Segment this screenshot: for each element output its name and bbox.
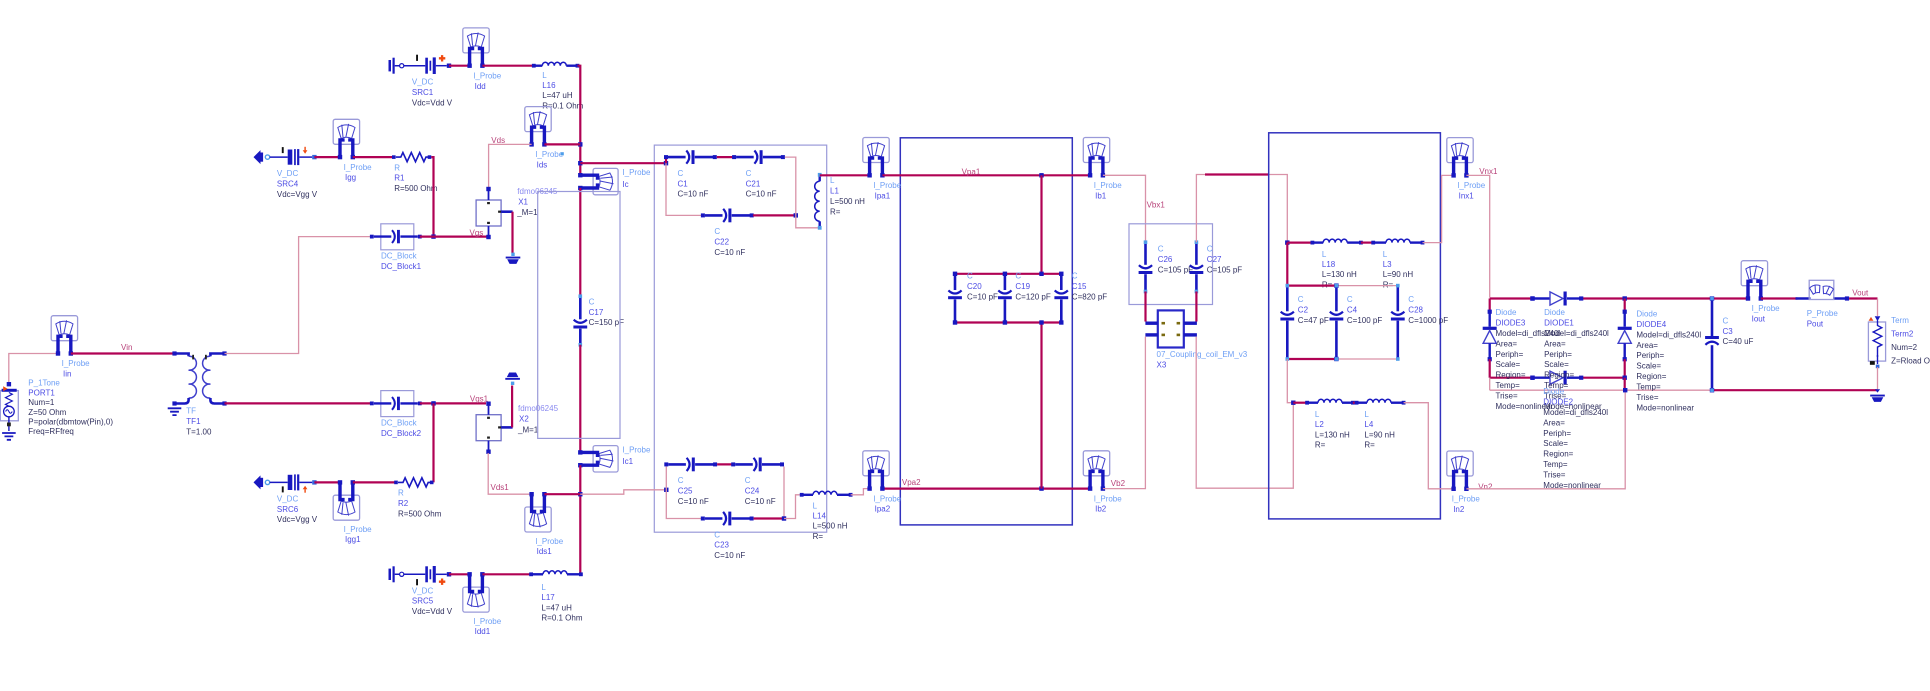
svg-text:C: C bbox=[714, 530, 720, 539]
wire secondary bottom to DC_Block2 bbox=[225, 402, 372, 404]
wire C25 to C24 bbox=[717, 463, 733, 465]
svg-text:C: C bbox=[1298, 295, 1304, 304]
svg-text:Num=1: Num=1 bbox=[28, 398, 55, 407]
P_Probe Pout bbox=[1796, 280, 1850, 300]
svg-text:SRC5: SRC5 bbox=[412, 597, 434, 606]
svg-text:Ic1: Ic1 bbox=[622, 457, 633, 466]
svg-text:R=500 Ohm: R=500 Ohm bbox=[398, 509, 442, 518]
svg-text:Scale=: Scale= bbox=[1496, 360, 1521, 369]
svg-text:I_Probe: I_Probe bbox=[473, 617, 502, 626]
svg-text:Area=: Area= bbox=[1636, 341, 1658, 350]
subnetwork box A around C1..C23 bbox=[654, 145, 826, 532]
svg-text:Diode: Diode bbox=[1636, 310, 1657, 319]
V_DC SRC4 bbox=[254, 147, 317, 165]
svg-text:X1: X1 bbox=[518, 198, 528, 207]
capacitor C27 bbox=[1190, 240, 1204, 293]
svg-text:I_Probe: I_Probe bbox=[622, 445, 651, 454]
svg-text:Vdc=Vdd V: Vdc=Vdd V bbox=[412, 99, 453, 108]
junction trio riser top bbox=[1039, 173, 1043, 177]
svg-text:Region=: Region= bbox=[1544, 371, 1574, 380]
wire C25-left vertical to C23 (pink) bbox=[666, 467, 703, 519]
svg-text:L1: L1 bbox=[830, 187, 839, 196]
svg-text:V_DC: V_DC bbox=[412, 586, 434, 595]
inductor L1 (vertical) bbox=[815, 173, 822, 230]
svg-text:R=500 Ohm: R=500 Ohm bbox=[394, 184, 438, 193]
wire X1 source to ground bbox=[511, 212, 513, 253]
wire In2 to rectifier (pink) bbox=[1466, 390, 1625, 489]
svg-text:Term2: Term2 bbox=[1891, 330, 1914, 339]
svg-text:Area=: Area= bbox=[1544, 339, 1566, 348]
svg-text:C=40 uF: C=40 uF bbox=[1723, 337, 1754, 346]
svg-text:I_Probe: I_Probe bbox=[473, 71, 502, 80]
diode top rail bbox=[1490, 297, 1533, 299]
svg-text:C4: C4 bbox=[1347, 305, 1358, 314]
svg-text:C: C bbox=[1158, 245, 1164, 254]
svg-text:C24: C24 bbox=[745, 487, 760, 496]
svg-text:Vpa2: Vpa2 bbox=[902, 478, 921, 487]
junctions top rail bbox=[1530, 296, 1534, 300]
svg-text:Ic: Ic bbox=[622, 180, 628, 189]
stray pin dot bbox=[561, 152, 564, 155]
V_DC SRC5 bbox=[389, 566, 452, 585]
svg-text:L3: L3 bbox=[1383, 260, 1392, 269]
svg-text:SRC1: SRC1 bbox=[412, 88, 434, 97]
svg-text:R: R bbox=[398, 489, 404, 498]
wire to L18 bbox=[1287, 242, 1312, 244]
I_Probe In2 bbox=[1447, 451, 1473, 491]
svg-text:07_Coupling_coil_EM_v3: 07_Coupling_coil_EM_v3 bbox=[1157, 350, 1248, 359]
ground X2 (flipped) bbox=[505, 373, 520, 380]
transistor block X2 fdmo06245 (mirrored) bbox=[476, 402, 512, 454]
I_Probe Ic (rotated) bbox=[578, 168, 618, 194]
svg-text:R2: R2 bbox=[398, 499, 409, 508]
svg-text:L: L bbox=[1364, 410, 1369, 419]
svg-text:C=10 nF: C=10 nF bbox=[745, 497, 776, 506]
svg-text:Ib2: Ib2 bbox=[1095, 505, 1107, 514]
V_DC SRC6 bbox=[254, 474, 317, 492]
svg-text:C19: C19 bbox=[1015, 282, 1030, 291]
svg-text:L=130 nH: L=130 nH bbox=[1315, 430, 1350, 439]
wire Term2 to ground rail bbox=[1877, 367, 1879, 390]
capacitor C23 bbox=[701, 512, 754, 526]
capacitor C3 (flipped) bbox=[1705, 297, 1719, 392]
svg-text:Area=: Area= bbox=[1543, 418, 1565, 427]
svg-text:Scale=: Scale= bbox=[1636, 362, 1661, 371]
DC_Block DC_Block1 bbox=[370, 224, 422, 250]
I_Probe Ipa2 bbox=[863, 451, 889, 491]
svg-text:L: L bbox=[813, 501, 818, 510]
capacitor C19 bbox=[998, 275, 1012, 321]
wire C17 to Ic1 bbox=[579, 345, 581, 452]
diode DIODE3 (vertical) bbox=[1489, 299, 1491, 312]
wire Ids1 to drain bus bbox=[544, 493, 580, 495]
svg-text:Freq=RFfreq: Freq=RFfreq bbox=[28, 427, 74, 436]
svg-text:Temp=: Temp= bbox=[1636, 382, 1661, 391]
svg-text:C: C bbox=[678, 169, 684, 178]
wire Ic1 to lower corner bbox=[579, 465, 581, 574]
svg-text:Idd1: Idd1 bbox=[475, 627, 491, 636]
junction bbox=[664, 488, 668, 492]
I_Probe Igg1 bbox=[333, 480, 359, 520]
svg-text:R=: R= bbox=[830, 207, 841, 216]
wire SRC6 to Igg1 bbox=[314, 481, 340, 483]
I_Probe Ib2 bbox=[1083, 451, 1109, 491]
svg-text:Vdc=Vdd V: Vdc=Vdd V bbox=[412, 607, 453, 616]
svg-text:I_Probe: I_Probe bbox=[1452, 495, 1481, 504]
wire Ids to drain bus bbox=[544, 143, 580, 145]
svg-text:L: L bbox=[541, 583, 546, 592]
svg-text:Vgs: Vgs bbox=[470, 229, 484, 238]
svg-text:C3: C3 bbox=[1723, 327, 1734, 336]
svg-text:C17: C17 bbox=[589, 308, 604, 317]
svg-text:C=10 nF: C=10 nF bbox=[714, 551, 745, 560]
svg-text:R=: R= bbox=[1315, 441, 1326, 450]
I_Probe Igg bbox=[333, 119, 359, 159]
port P_1Tone PORT1 bbox=[0, 382, 18, 431]
wire Inx1 to diode bridge (pink) bbox=[1466, 175, 1489, 297]
junction C1 feed bbox=[578, 161, 582, 165]
junction bbox=[794, 213, 798, 217]
wire L3 out to Inx1 (pink) bbox=[1423, 175, 1454, 242]
wire SRC1 to Idd bbox=[449, 65, 470, 67]
svg-text:V_DC: V_DC bbox=[412, 78, 434, 87]
svg-text:C=10 nF: C=10 nF bbox=[678, 190, 709, 199]
svg-text:X2: X2 bbox=[519, 415, 529, 424]
svg-text:I_Probe: I_Probe bbox=[62, 359, 91, 368]
wire C21 out down to L1 (pink) bbox=[785, 157, 796, 215]
svg-text:R=: R= bbox=[1383, 280, 1394, 289]
wire DC_Block2 to X2 gate bbox=[420, 402, 486, 404]
svg-text:Model=di_dfls240l: Model=di_dfls240l bbox=[1543, 408, 1608, 417]
svg-text:L: L bbox=[1383, 250, 1388, 259]
inductor L3 bbox=[1371, 239, 1424, 244]
wire C24-right vertical (pink) bbox=[783, 467, 785, 519]
svg-text:DC_Block: DC_Block bbox=[381, 418, 418, 427]
svg-text:L2: L2 bbox=[1315, 420, 1324, 429]
svg-text:R=: R= bbox=[1364, 441, 1375, 450]
box D around C26/C27 bbox=[1129, 224, 1213, 305]
svg-text:Z=Rload Oh: Z=Rload Oh bbox=[1891, 357, 1930, 366]
svg-text:C=100 pF: C=100 pF bbox=[1347, 316, 1382, 325]
svg-text:C=10 nF: C=10 nF bbox=[714, 248, 745, 257]
wire R2 riser bbox=[432, 403, 434, 482]
svg-text:C=10 nF: C=10 nF bbox=[746, 190, 777, 199]
svg-text:Periph=: Periph= bbox=[1636, 351, 1664, 360]
svg-text:L4: L4 bbox=[1364, 420, 1373, 429]
wire Vpa1 rail to Ib1 bbox=[882, 174, 1090, 176]
resistor R1 bbox=[392, 153, 431, 162]
svg-text:Region=: Region= bbox=[1636, 372, 1666, 381]
transistor block X1 fdmo06245 bbox=[476, 187, 512, 239]
svg-text:Z=50 Ohm: Z=50 Ohm bbox=[28, 408, 66, 417]
svg-text:Area=: Area= bbox=[1496, 339, 1518, 348]
svg-text:Periph=: Periph= bbox=[1544, 350, 1572, 359]
ground under PORT1 bbox=[2, 433, 16, 440]
svg-text:Pout: Pout bbox=[1807, 320, 1824, 329]
junction L18 row bbox=[1285, 240, 1289, 244]
ground under TF1 bbox=[168, 408, 182, 415]
svg-text:L: L bbox=[542, 71, 547, 80]
svg-text:R: R bbox=[394, 163, 400, 172]
capacitor C21 bbox=[732, 150, 785, 164]
capacitor C22 bbox=[701, 209, 754, 223]
I_Probe Ipa1 bbox=[863, 138, 889, 178]
svg-text:Diode: Diode bbox=[1543, 387, 1564, 396]
svg-text:I_Probe: I_Probe bbox=[535, 150, 564, 159]
wire C27 top to box C (crimson+pink) bbox=[1196, 175, 1268, 243]
wire L14 to Ipa2 (pink jog) bbox=[851, 489, 870, 495]
svg-text:C=105 pF: C=105 pF bbox=[1158, 266, 1193, 275]
svg-text:SRC6: SRC6 bbox=[277, 505, 299, 514]
network box C bbox=[1269, 133, 1441, 519]
capacitor C4 bbox=[1330, 284, 1344, 361]
svg-text:R=0.1 Ohm: R=0.1 Ohm bbox=[542, 101, 583, 110]
svg-text:Periph=: Periph= bbox=[1496, 350, 1524, 359]
resistor R2 bbox=[394, 478, 433, 487]
svg-text:C28: C28 bbox=[1408, 305, 1423, 314]
svg-text:C15: C15 bbox=[1072, 282, 1087, 291]
svg-text:C: C bbox=[1207, 245, 1213, 254]
wire X3 right down and to L2 row (pink) bbox=[1196, 337, 1293, 489]
svg-text:I_Probe: I_Probe bbox=[622, 168, 651, 177]
svg-text:C=47 pF: C=47 pF bbox=[1298, 316, 1329, 325]
svg-text:Region=: Region= bbox=[1543, 450, 1573, 459]
svg-text:Term: Term bbox=[1891, 316, 1909, 325]
wire bottom rail drops bbox=[1489, 378, 1491, 391]
svg-text:I_Probe: I_Probe bbox=[873, 494, 902, 503]
ground X1 bbox=[506, 257, 521, 264]
svg-text:R=0.1 Ohm: R=0.1 Ohm bbox=[541, 614, 582, 623]
svg-text:C1: C1 bbox=[678, 179, 689, 188]
svg-text:Diode: Diode bbox=[1496, 308, 1517, 317]
svg-text:Model=di_dfls240l: Model=di_dfls240l bbox=[1544, 329, 1609, 338]
svg-text:DC_Block: DC_Block bbox=[381, 252, 418, 261]
svg-text:V_DC: V_DC bbox=[277, 494, 299, 503]
junctions on trio rails bbox=[1003, 272, 1007, 276]
diode bottom rail bbox=[1490, 377, 1533, 379]
svg-text:I_Probe: I_Probe bbox=[1094, 181, 1123, 190]
svg-text:L18: L18 bbox=[1322, 260, 1336, 269]
wire C22 out bbox=[753, 214, 796, 216]
ground return rail (pink then crimson) bbox=[1490, 389, 1712, 391]
svg-text:C: C bbox=[1347, 295, 1353, 304]
svg-text:P=polar(dbmtow(Pin),0): P=polar(dbmtow(Pin),0) bbox=[28, 418, 113, 427]
wire Idd1 to L17 bbox=[482, 573, 531, 575]
svg-text:Vn2: Vn2 bbox=[1478, 483, 1493, 492]
svg-text:Idd: Idd bbox=[475, 82, 486, 91]
DC_Block DC_Block2 bbox=[370, 391, 422, 417]
svg-text:Iin: Iin bbox=[63, 370, 71, 379]
wire Vpa2 rail: Ipa2 to Ib2 bbox=[882, 488, 1090, 490]
junction C1 left bbox=[664, 161, 668, 165]
riser to cap rail bbox=[1286, 243, 1288, 286]
wire SRC5 to Idd1 bbox=[449, 573, 470, 575]
wire Vin pink from PORT1 to I_Probe Iin bbox=[9, 354, 58, 385]
wire L18 to L3 bbox=[1361, 242, 1373, 244]
svg-text:Model=di_dfls240l: Model=di_dfls240l bbox=[1636, 330, 1701, 339]
svg-text:L=500 nH: L=500 nH bbox=[830, 197, 865, 206]
wire Vgs to X1 gate bbox=[420, 236, 487, 238]
svg-text:DIODE1: DIODE1 bbox=[1544, 319, 1574, 328]
svg-text:C21: C21 bbox=[746, 179, 761, 188]
inductor L17 bbox=[529, 571, 583, 576]
svg-text:C: C bbox=[746, 169, 752, 178]
svg-text:C=10 nF: C=10 nF bbox=[678, 497, 709, 506]
junction bbox=[782, 516, 786, 520]
I_Probe Idd bbox=[463, 28, 489, 68]
svg-text:Num=2: Num=2 bbox=[1891, 343, 1918, 352]
svg-text:C2: C2 bbox=[1298, 305, 1309, 314]
svg-text:C22: C22 bbox=[714, 238, 729, 247]
svg-text:C: C bbox=[678, 476, 684, 485]
wire L2 to L4 bbox=[1353, 402, 1357, 404]
svg-text:In2: In2 bbox=[1453, 505, 1465, 514]
ground under Term2 bbox=[1875, 389, 1880, 392]
svg-text:R1: R1 bbox=[394, 174, 405, 183]
capacitor C2 bbox=[1280, 284, 1294, 361]
svg-text:Scale=: Scale= bbox=[1544, 360, 1569, 369]
EM box around C17 / FET pair bbox=[538, 192, 620, 439]
svg-text:Vdc=Vgg V: Vdc=Vgg V bbox=[277, 190, 318, 199]
svg-text:Trise=: Trise= bbox=[1636, 393, 1658, 402]
wire Vin bbox=[71, 352, 175, 354]
svg-text:Temp=: Temp= bbox=[1496, 381, 1521, 390]
svg-text:L: L bbox=[830, 176, 835, 185]
svg-text:L17: L17 bbox=[541, 593, 555, 602]
svg-text:Iout: Iout bbox=[1752, 314, 1766, 323]
svg-text:C=1000 pF: C=1000 pF bbox=[1408, 316, 1448, 325]
svg-text:L: L bbox=[1322, 250, 1327, 259]
svg-text:C25: C25 bbox=[678, 487, 693, 496]
svg-text:Vgs1: Vgs1 bbox=[470, 395, 489, 404]
inductor L4 bbox=[1355, 399, 1406, 404]
junctions bbox=[1334, 283, 1338, 287]
svg-text:C: C bbox=[967, 272, 973, 281]
wire secondary top to DC_Block1 (pink) bbox=[225, 237, 372, 354]
wire drain bus to C1 block bbox=[580, 162, 666, 164]
wire C26 to X3 bbox=[1144, 292, 1146, 322]
svg-text:Ids1: Ids1 bbox=[537, 547, 553, 556]
wire cap rail down to L2 row (pink) bbox=[1287, 359, 1293, 403]
svg-text:Ipa1: Ipa1 bbox=[875, 191, 891, 200]
wire L4 out to In2 (pink) bbox=[1404, 403, 1454, 489]
cap bottom rail bbox=[1287, 358, 1336, 360]
svg-text:C=150 pF: C=150 pF bbox=[589, 318, 624, 327]
wire drain bus top corner bbox=[578, 66, 581, 173]
I_Probe Idd1 bbox=[463, 572, 489, 612]
transformer TF1 bbox=[172, 351, 226, 405]
wire Igg to R1 bbox=[353, 156, 394, 158]
svg-text:DIODE4: DIODE4 bbox=[1636, 320, 1666, 329]
svg-text:TF: TF bbox=[186, 407, 196, 416]
svg-text:Diode: Diode bbox=[1544, 308, 1565, 317]
trio riser top bbox=[1040, 175, 1042, 273]
svg-text:Region=: Region= bbox=[1496, 371, 1526, 380]
svg-text:I_Probe: I_Probe bbox=[1094, 494, 1123, 503]
Term Term2 bbox=[1868, 316, 1885, 368]
coupling coil X3 box bbox=[1145, 310, 1197, 347]
I_Probe Iin bbox=[51, 316, 77, 356]
svg-text:Vdc=Vgg V: Vdc=Vgg V bbox=[277, 515, 318, 524]
wire SRC4 to Igg bbox=[314, 156, 340, 158]
diode DIODE2 (horizontal) bbox=[1530, 371, 1583, 385]
svg-text:C=120 pF: C=120 pF bbox=[1015, 293, 1050, 302]
svg-text:Vb2: Vb2 bbox=[1111, 479, 1126, 488]
svg-text:I_Probe: I_Probe bbox=[1457, 181, 1486, 190]
svg-text:R=: R= bbox=[813, 532, 824, 541]
wire Idd to L16 bbox=[482, 65, 533, 67]
wire X2 drain to Ids1 (pink) bbox=[488, 453, 531, 494]
capacitor C17 bbox=[573, 294, 587, 346]
trio bottom rail bbox=[955, 321, 1061, 323]
wire C23 out bbox=[754, 517, 784, 519]
svg-text:Igg: Igg bbox=[345, 173, 356, 182]
I_Probe Ids bbox=[525, 107, 551, 147]
svg-text:I_Probe: I_Probe bbox=[1752, 304, 1781, 313]
svg-text:L=90 nH: L=90 nH bbox=[1364, 430, 1395, 439]
svg-text:T=1.00: T=1.00 bbox=[186, 427, 212, 436]
svg-text:L=90 nH: L=90 nH bbox=[1383, 270, 1414, 279]
svg-text:Ib1: Ib1 bbox=[1095, 191, 1107, 200]
wire Ids1 junction to cap block (pink jog) bbox=[580, 490, 666, 494]
svg-text:L=500 nH: L=500 nH bbox=[813, 522, 848, 531]
svg-text:DC_Block2: DC_Block2 bbox=[381, 429, 422, 438]
svg-text:L=130 nH: L=130 nH bbox=[1322, 270, 1357, 279]
wire to L14 (pink) bbox=[784, 495, 802, 519]
svg-text:Vin: Vin bbox=[121, 343, 132, 352]
junction trio riser bottom bbox=[1039, 486, 1043, 490]
svg-text:C: C bbox=[1408, 295, 1414, 304]
I_Probe Ids1 bbox=[525, 492, 551, 532]
svg-text:I_Probe: I_Probe bbox=[344, 525, 373, 534]
junction Ids1 tap bbox=[578, 492, 582, 496]
svg-text:Ipa2: Ipa2 bbox=[875, 505, 891, 514]
junction bbox=[431, 401, 435, 405]
svg-text:C: C bbox=[1072, 272, 1078, 281]
I_Probe Ic1 (rotated) bbox=[578, 446, 618, 472]
svg-text:P_1Tone: P_1Tone bbox=[28, 379, 60, 388]
svg-text:Vds: Vds bbox=[491, 136, 505, 145]
junction L2 row bbox=[1291, 401, 1295, 405]
inductor L2 bbox=[1305, 399, 1355, 404]
svg-text:C20: C20 bbox=[967, 282, 982, 291]
svg-text:TF1: TF1 bbox=[186, 417, 201, 426]
capacitor C26 bbox=[1139, 240, 1153, 293]
svg-text:DIODE2: DIODE2 bbox=[1543, 398, 1573, 407]
svg-text:Mode=nonlinear: Mode=nonlinear bbox=[1636, 403, 1694, 412]
wire Vpa1 rail: L1 to Ipa1 bbox=[820, 174, 870, 176]
svg-text:P_Probe: P_Probe bbox=[1807, 309, 1839, 318]
wire X2 source to ground (up) bbox=[511, 386, 513, 428]
wire Vb2 rail Ib2 to X3 (pink) bbox=[1103, 337, 1146, 489]
svg-text:Ids: Ids bbox=[537, 161, 548, 170]
svg-text:I_Probe: I_Probe bbox=[344, 163, 373, 172]
svg-text:X3: X3 bbox=[1157, 360, 1167, 369]
svg-text:Scale=: Scale= bbox=[1543, 439, 1568, 448]
inductor L16 bbox=[532, 62, 580, 67]
svg-text:Mode=nonlinear: Mode=nonlinear bbox=[1543, 481, 1601, 490]
wire C27 to X3 bbox=[1195, 292, 1197, 322]
svg-text:I_Probe: I_Probe bbox=[535, 537, 564, 546]
svg-text:L16: L16 bbox=[542, 81, 556, 90]
capacitor C20 bbox=[948, 275, 962, 321]
svg-text:Temp=: Temp= bbox=[1543, 460, 1568, 469]
wire drain bus to C17 bbox=[579, 188, 581, 296]
capacitor C1 bbox=[664, 150, 717, 164]
svg-text:DIODE3: DIODE3 bbox=[1496, 319, 1526, 328]
svg-text:Igg1: Igg1 bbox=[345, 535, 361, 544]
capacitor C25 bbox=[664, 458, 717, 472]
